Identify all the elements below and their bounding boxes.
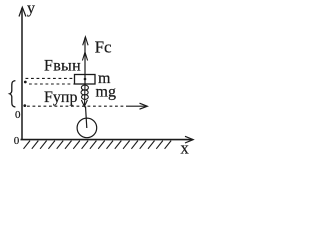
- ground hatching: [24, 141, 172, 149]
- svg-text:Fс: Fс: [95, 38, 112, 57]
- x-axis ground line: [21, 139, 193, 141]
- y-axis line: [21, 8, 23, 140]
- spring coil: [81, 85, 88, 99]
- svg-text:mg: mg: [96, 83, 116, 100]
- force arrowhead Fvyn: [82, 52, 87, 60]
- force line through block up: [84, 38, 86, 85]
- dashed line B (block bottom level): [29, 83, 74, 85]
- ball: [77, 118, 97, 138]
- svg-text:x: x: [181, 138, 190, 157]
- spring force line down: [84, 85, 87, 107]
- axis dot lower: [23, 104, 26, 107]
- y-axis arrowhead: [19, 7, 26, 16]
- dashed line C arrow: [128, 105, 147, 107]
- dashed line A (block centre level): [26, 77, 74, 79]
- block center dot: [84, 78, 87, 81]
- mass block m: [75, 75, 96, 85]
- svg-text:Fупр: Fупр: [44, 89, 77, 106]
- axis dot upper: [24, 81, 27, 84]
- svg-text:0: 0: [15, 109, 21, 121]
- force arrowhead Fc: [83, 37, 88, 46]
- svg-text:Fвын: Fвын: [44, 58, 81, 75]
- dashed line C (lower level): [27, 105, 128, 107]
- svg-text:0: 0: [14, 135, 20, 147]
- amplitude brace: [10, 81, 16, 107]
- x-axis arrowhead: [185, 136, 193, 143]
- svg-text:y: y: [27, 0, 35, 17]
- force arrowhead Fupr down: [81, 100, 87, 106]
- rod line to ball: [86, 106, 87, 128]
